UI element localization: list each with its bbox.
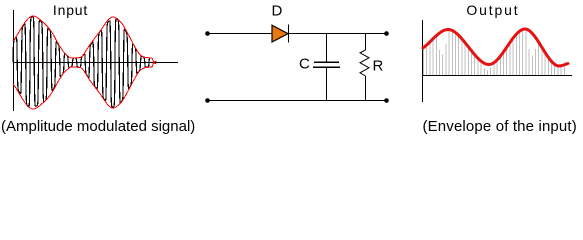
svg-text:(Amplitude modulated signal): (Amplitude modulated signal) xyxy=(1,118,195,135)
svg-text:C: C xyxy=(299,56,310,73)
svg-text:Output: Output xyxy=(466,2,519,18)
svg-text:D: D xyxy=(272,3,283,20)
svg-text:(Envelope of the input): (Envelope of the input) xyxy=(423,118,577,135)
svg-text:R: R xyxy=(373,58,384,75)
svg-text:Input: Input xyxy=(53,2,88,18)
